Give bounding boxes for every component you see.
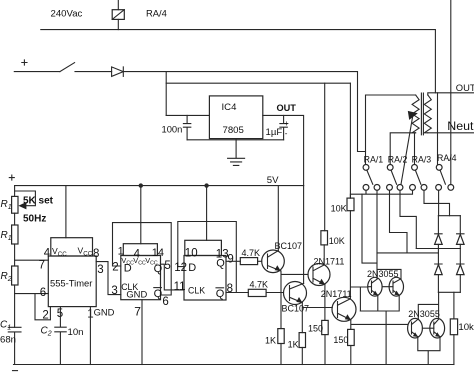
svg-text:555-Timer: 555-Timer (50, 278, 92, 289)
wire: RA/4 feed (437, 93, 439, 165)
svg-text:D: D (124, 262, 132, 274)
wire: 5V rail (15, 185, 304, 187)
relay contact RA/1 (363, 165, 380, 191)
wire: primary bottom taps to RA/2 RA/3 (390, 133, 415, 165)
svg-text:2: 2 (42, 310, 48, 322)
potentiometer R1 5K (12, 186, 36, 214)
svg-text:14: 14 (152, 247, 164, 259)
svg-text:12: 12 (174, 262, 187, 274)
resistor 4.7K (top) (226, 248, 262, 265)
wire (14, 244, 16, 266)
transistor BC107 (top) (262, 241, 302, 272)
wire: FF1 pin7 to ground (141, 300, 143, 365)
ground (228, 139, 245, 166)
transistor BC107 (bottom) (282, 282, 310, 314)
wire: 240Vac top rail (41, 30, 436, 93)
transistor 2N3055 pair2 right (430, 318, 445, 338)
svg-text:Q: Q (216, 257, 225, 269)
svg-text:5: 5 (164, 260, 170, 272)
transistor 2N1711 (first) (308, 257, 344, 286)
wire: BC107a collector to 5V (277, 186, 279, 251)
resistor 150 (first) (308, 320, 328, 364)
wire: FF1 D to Qbar loop (113, 223, 172, 295)
wire: 1711b emitter (351, 320, 408, 330)
svg-text:68n: 68n (0, 335, 16, 346)
wire: rail to 10K (166, 82, 350, 84)
relay contact RA/3 (410, 165, 427, 191)
wire: pair2 collectors from diode bank (418, 292, 438, 319)
svg-text:10n: 10n (68, 327, 84, 338)
transistor 2N3055 pair2 left (408, 318, 423, 338)
wire: FF2 Vcc feed (206, 186, 208, 241)
resistor 10k (output) (450, 292, 474, 364)
wire: ground rail (14, 364, 454, 366)
wire: IC4 input (166, 114, 209, 116)
svg-text:10K: 10K (329, 236, 345, 246)
svg-text:+: + (284, 119, 289, 128)
svg-text:OUT: OUT (456, 82, 474, 93)
resistor 4.7K (bottom) (226, 280, 284, 297)
svg-text:1µF: 1µF (266, 127, 283, 138)
wire: pin6 to R2/C1 junction (15, 293, 49, 295)
wire: RA4 left contact to diode top rail (438, 190, 440, 215)
resistor 150 (second) (333, 329, 354, 364)
svg-text:3: 3 (97, 264, 103, 276)
node + (5V rail) (9, 175, 14, 180)
wire: secondary top / OUT line (428, 93, 474, 95)
wire: pair2 base link (422, 327, 433, 329)
wire: secondary bottom / Neutral line (428, 132, 474, 134)
wire: pin2 to pin6 loop (35, 294, 50, 320)
wire (75, 71, 112, 73)
svg-text:1K: 1K (288, 339, 299, 349)
svg-text:2N1711: 2N1711 (314, 257, 345, 267)
FF2 port Qbar (216, 288, 225, 300)
variac wiper arrow (401, 111, 418, 184)
svg-text:2N3055: 2N3055 (408, 309, 440, 319)
svg-text:240Vac: 240Vac (51, 9, 83, 20)
wire: BC107b emitter node (302, 303, 332, 333)
wire: 5V OUT from IC4 (263, 115, 304, 185)
transformer T1 primary winding (412, 95, 419, 133)
FF1 port Qbar (154, 288, 163, 300)
wire: long vertical to RA/4 right contact (450, 0, 452, 185)
svg-text:10: 10 (185, 247, 198, 259)
svg-text:-: - (285, 129, 288, 138)
wire: 1711a emitter (324, 285, 326, 321)
junction dot B (204, 183, 208, 187)
node - (battery negative) (13, 370, 18, 372)
svg-text:2: 2 (112, 261, 118, 273)
svg-text:CLK: CLK (188, 285, 205, 295)
wire: pin7 to R1/R2 junction (15, 259, 49, 261)
svg-text:OUT: OUT (277, 103, 297, 113)
svg-text:1K: 1K (265, 335, 276, 345)
diode D2 (457, 216, 465, 249)
wire: 555 Vcc feed (65, 186, 67, 238)
svg-text:RA/3: RA/3 (412, 155, 432, 165)
wire: pair1 emitters to ground (360, 295, 399, 364)
svg-text:100n: 100n (162, 123, 183, 134)
diode D1 (435, 216, 443, 249)
svg-text:5K set: 5K set (23, 196, 54, 207)
svg-text:10k: 10k (458, 322, 474, 333)
svg-text:2N1711: 2N1711 (321, 289, 352, 299)
wire: pair1 base link (368, 286, 393, 288)
wire: FF1 Q to FF2 clock (161, 264, 185, 290)
transformer T1 secondary winding (424, 95, 431, 133)
svg-text:RA/4: RA/4 (437, 153, 457, 163)
svg-text:9: 9 (227, 253, 233, 265)
resistor R2 (1, 266, 19, 285)
capacitor C2 10n (41, 307, 84, 365)
FF1 Vcc labels (121, 256, 157, 267)
svg-text:150: 150 (333, 335, 348, 345)
voltage regulator IC4 7805 (209, 96, 262, 139)
svg-text:7805: 7805 (223, 125, 244, 136)
wire (14, 285, 16, 327)
resistor 10K (second) (331, 83, 354, 213)
svg-text:7: 7 (134, 304, 141, 318)
svg-text:IC4: IC4 (222, 102, 238, 113)
svg-text:11: 11 (174, 281, 186, 293)
capacitor C1 68n (0, 320, 21, 365)
svg-text:150: 150 (308, 324, 323, 334)
wire: pair2 emitters to ground (418, 337, 440, 365)
wire: 555 pin1 to ground rail (89, 307, 91, 365)
wire: primary top to RA/1 (366, 95, 416, 165)
wire: RA2 right contact path (400, 190, 416, 248)
transistor 2N1711 (second) (321, 289, 356, 322)
diode D3 (435, 249, 443, 293)
resistor R1b (1, 225, 19, 244)
svg-text:8: 8 (93, 248, 99, 260)
svg-text:4.7K: 4.7K (242, 248, 261, 258)
relay coil RA/4 (112, 0, 124, 30)
resistor 1K (left) (265, 329, 284, 365)
junction dot A (139, 183, 143, 187)
wire: RA2 left contact path (390, 190, 408, 253)
wire: 555 out to FF1 clock (96, 262, 121, 295)
svg-text:RA/2: RA/2 (388, 155, 408, 165)
svg-text:GND: GND (94, 307, 115, 318)
capacitor 100n (162, 115, 191, 139)
wire: BC107a emitter node (281, 271, 308, 329)
svg-text:RA/1: RA/1 (364, 155, 384, 165)
svg-text:4.7K: 4.7K (250, 280, 269, 290)
wire: BC107b collector (303, 186, 305, 284)
capacitor 1uF (266, 115, 290, 139)
wire: regulator input drop (165, 72, 167, 116)
diode D5 (112, 67, 124, 77)
node + (battery positive) (22, 60, 27, 65)
wire: 1711b collector / NPN pair1 base bus (350, 211, 368, 311)
wire: diode bank middle rail (416, 248, 460, 250)
svg-text:5V: 5V (267, 175, 279, 186)
wire: ground side of caps (187, 139, 284, 141)
diode D4 (457, 249, 465, 293)
wire: diode bank top rail (438, 215, 460, 217)
svg-text:4: 4 (44, 248, 51, 260)
transformer core (421, 93, 423, 135)
relay contact RA/4 (436, 165, 454, 191)
svg-text:6: 6 (162, 296, 168, 308)
resistor 10K (first) (321, 83, 345, 265)
svg-text:RA/4: RA/4 (146, 8, 167, 19)
IC flip-flop FF2 (4013) (184, 240, 226, 300)
svg-text:D: D (188, 262, 196, 274)
svg-text:50Hz: 50Hz (23, 214, 46, 225)
wire (14, 213, 16, 225)
relay contact RA/2 (387, 165, 403, 191)
wire: FF2 D to Qbar loop (178, 222, 237, 293)
svg-text:GND: GND (126, 289, 147, 300)
svg-text:BC107: BC107 (282, 304, 310, 314)
wire: RA1 right contact to pair1 collectors (362, 190, 401, 278)
svg-text:Q: Q (154, 288, 163, 300)
wire: FF1 Vcc feed (140, 186, 142, 244)
IC 555-Timer (48, 238, 96, 307)
transistor 2N3055 pair1 left (368, 277, 382, 296)
svg-text:6: 6 (40, 287, 46, 299)
svg-text:Q: Q (154, 263, 163, 275)
wire: crossover to diode bank lower-left (377, 252, 438, 254)
wire: diode bank bottom rail (438, 291, 460, 293)
transistor 2N3055 pair1 right (389, 277, 403, 296)
svg-text:3: 3 (111, 285, 117, 297)
switch S1 (14, 63, 74, 72)
svg-text:10K: 10K (331, 204, 347, 214)
IC flip-flop FF1 (4013) (121, 244, 161, 300)
svg-text:Q: Q (216, 288, 225, 300)
resistor 1K (right) (288, 333, 306, 365)
svg-text:7: 7 (39, 259, 45, 271)
wire: RA3 right contact to diode top (424, 190, 450, 215)
wire: DC feed line to relay switches (123, 72, 365, 152)
wire: contact bus (350, 190, 412, 198)
